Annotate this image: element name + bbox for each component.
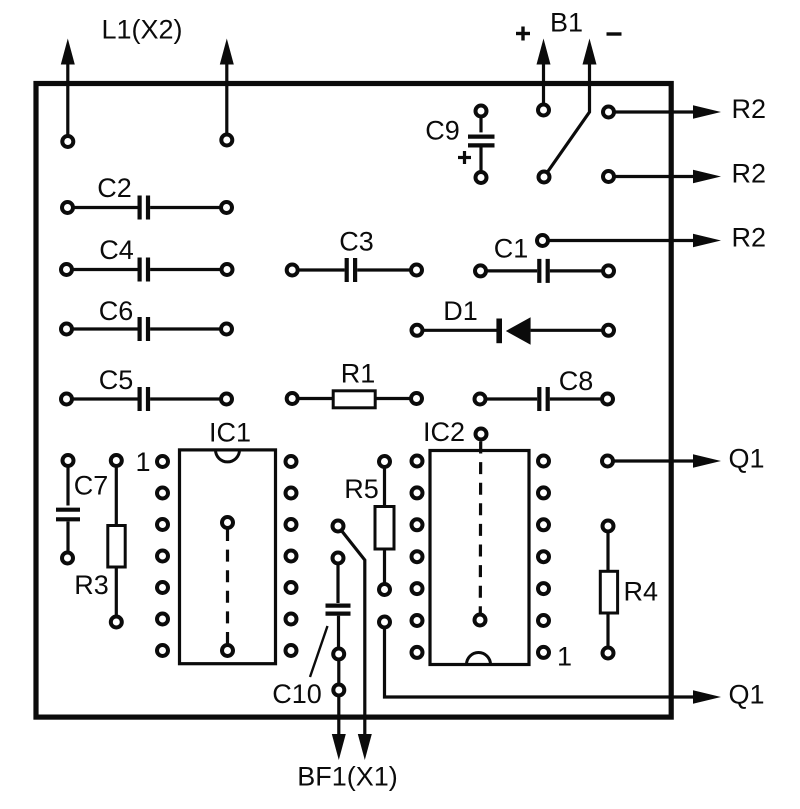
pad IC1 pin 4 (left col) bbox=[157, 551, 168, 562]
pad IC1 pin 2 (left col) bbox=[157, 488, 168, 499]
pad C6 left bbox=[61, 324, 72, 335]
pad L1 b bbox=[221, 135, 232, 146]
svg-text:IC2: IC2 bbox=[423, 417, 465, 447]
svg-text:C5: C5 bbox=[99, 365, 134, 395]
pad IC2 pin 13 (left col) bbox=[412, 487, 423, 498]
svg-text:C7: C7 bbox=[74, 471, 109, 501]
pad D1 left bbox=[412, 325, 423, 336]
pad C8 left bbox=[475, 394, 486, 405]
svg-text:Q1: Q1 bbox=[729, 444, 765, 474]
pad IC1 inner bottom bbox=[222, 645, 233, 656]
pad BF1 right origin bbox=[333, 521, 344, 532]
capacitor C6 bbox=[67, 317, 227, 341]
wire R2 bottom bbox=[543, 234, 722, 248]
pad IC2 pin 8 (left col) bbox=[412, 647, 423, 658]
pad IC2 pin 3 (right col) bbox=[538, 519, 549, 530]
pad C9 top bbox=[476, 106, 487, 117]
connector BF1 arrow left bbox=[332, 690, 346, 760]
pad C10 bottom bbox=[333, 649, 344, 660]
svg-text:L1(X2): L1(X2) bbox=[101, 15, 182, 45]
wire R2 top bbox=[609, 105, 722, 119]
wire C10 to BF1 pad bbox=[337, 654, 340, 690]
svg-text:R5: R5 bbox=[344, 474, 379, 504]
svg-text:C9: C9 bbox=[425, 116, 460, 146]
svg-text:1: 1 bbox=[135, 447, 150, 477]
capacitor C8 bbox=[480, 387, 608, 411]
pad C8 right bbox=[602, 394, 613, 405]
pad IC1 pin 14 (right col) bbox=[286, 456, 297, 467]
wire Q1 bottom bbox=[385, 622, 722, 704]
pad R3 top bbox=[111, 455, 122, 466]
pad IC2 pin 9 (left col) bbox=[412, 615, 423, 626]
IC2 dashed center line bbox=[479, 442, 483, 614]
pad IC1 pin 12 (right col) bbox=[286, 519, 297, 530]
pad IC1 pin 5 (left col) bbox=[157, 582, 168, 593]
svg-text:C10: C10 bbox=[272, 679, 322, 709]
pad C3 left bbox=[287, 265, 298, 276]
svg-text:R3: R3 bbox=[74, 570, 109, 600]
board outline bbox=[36, 84, 671, 718]
wire R2 middle bbox=[609, 170, 722, 184]
capacitor C7 bbox=[56, 461, 80, 559]
svg-text:Q1: Q1 bbox=[729, 680, 765, 710]
pad IC2 pin 2 (right col) bbox=[538, 487, 549, 498]
capacitor C2 bbox=[68, 196, 227, 220]
connector B1 minus arrow bbox=[583, 39, 597, 65]
pad IC2 pin 6 (right col) bbox=[538, 615, 549, 626]
label B1 plus sign bbox=[516, 27, 530, 41]
connector L1(X2) arrow B bbox=[220, 39, 234, 141]
pad R1 right bbox=[411, 393, 422, 404]
connector B1 plus arrow bbox=[537, 39, 551, 111]
pad R2 bottom bbox=[537, 235, 548, 246]
svg-text:C3: C3 bbox=[339, 227, 374, 257]
pad Q1 top bbox=[602, 456, 613, 467]
resistor R1 bbox=[292, 391, 416, 408]
pad C7 bottom bbox=[62, 553, 73, 564]
pad IC1 pin 7 (left col) bbox=[157, 645, 168, 656]
pad IC2 pin 5 (right col) bbox=[538, 583, 549, 594]
pad R5 top bbox=[379, 456, 390, 467]
pad C4 left bbox=[61, 264, 72, 275]
svg-text:C1: C1 bbox=[494, 234, 529, 264]
pad Q1 bottom bbox=[379, 617, 390, 628]
pad B1 minus bbox=[539, 172, 550, 183]
pad IC2 pin 4 (right col) bbox=[538, 551, 549, 562]
svg-text:R2: R2 bbox=[732, 159, 767, 189]
pad IC1 pin 6 (left col) bbox=[157, 614, 168, 625]
svg-text:B1: B1 bbox=[550, 8, 583, 38]
pad IC1 pin 8 (right col) bbox=[286, 645, 297, 656]
capacitor C4 bbox=[67, 258, 228, 282]
pad IC2 inner bottom bbox=[475, 615, 486, 626]
svg-text:IC1: IC1 bbox=[209, 418, 251, 448]
capacitor C1 bbox=[481, 259, 609, 283]
pad R4 top bbox=[603, 521, 614, 532]
svg-text:1: 1 bbox=[557, 642, 572, 672]
IC U2 (IC2) body bbox=[430, 451, 529, 665]
pad IC2 pin 1 (right col) bbox=[538, 456, 549, 467]
capacitor C9 bbox=[468, 111, 495, 178]
svg-text:R1: R1 bbox=[341, 359, 376, 389]
pad C5 left bbox=[61, 394, 72, 405]
IC U1 (IC1) body bbox=[180, 450, 276, 664]
pad IC2 pin 14 (left col) bbox=[412, 456, 423, 467]
pad IC1 pin 1 (left col) bbox=[157, 456, 168, 467]
pad C1 left bbox=[475, 265, 486, 276]
label B1 minus sign bbox=[607, 32, 622, 35]
pad BF1 left origin bbox=[333, 685, 344, 696]
capacitor C10 bbox=[326, 558, 351, 654]
resistor R4 bbox=[600, 526, 617, 653]
svg-text:R4: R4 bbox=[624, 577, 659, 607]
pad R2 top bbox=[603, 107, 614, 118]
svg-text:C6: C6 bbox=[99, 296, 134, 326]
pad R2 middle bbox=[603, 171, 614, 182]
pad R5 bottom bbox=[379, 584, 390, 595]
svg-text:C4: C4 bbox=[99, 235, 134, 265]
pad C2 left bbox=[62, 202, 73, 213]
pad IC1 pin 9 (right col) bbox=[286, 614, 297, 625]
pad D1 right bbox=[603, 325, 614, 336]
pad IC2 pin 12 (left col) bbox=[412, 519, 423, 530]
label C9 plus sign bbox=[458, 151, 471, 164]
pad C4 right bbox=[222, 264, 233, 275]
svg-text:D1: D1 bbox=[443, 296, 478, 326]
wire B1 minus diagonal bbox=[544, 63, 590, 178]
pad L1 a bbox=[62, 136, 73, 147]
pad C10 top bbox=[333, 553, 344, 564]
pad R1 left bbox=[287, 393, 298, 404]
wire Q1 top bbox=[608, 454, 722, 468]
pad IC2 pin 11 (left col) bbox=[412, 551, 423, 562]
pad C3 right bbox=[411, 265, 422, 276]
IC1 dashed center line bbox=[226, 529, 229, 645]
connector BF1 arrow right bbox=[358, 734, 372, 760]
svg-text:BF1(X1): BF1(X1) bbox=[297, 762, 398, 792]
pad C1 right bbox=[603, 265, 614, 276]
pad C9 bottom bbox=[476, 172, 487, 183]
svg-text:C8: C8 bbox=[559, 366, 594, 396]
diode D1 bbox=[417, 317, 609, 345]
pad IC2 pin 7 (right col) bbox=[538, 647, 549, 658]
label C10 pointer bbox=[310, 626, 328, 677]
pad IC1 pin 13 (right col) bbox=[286, 488, 297, 499]
svg-text:C2: C2 bbox=[97, 173, 132, 203]
pad C2 right bbox=[221, 202, 232, 213]
pad C5 right bbox=[221, 394, 232, 405]
pad R4 bottom bbox=[603, 648, 614, 659]
pad R3 bottom bbox=[111, 617, 122, 628]
pad B1 plus bbox=[538, 105, 549, 116]
connector L1(X2) arrow A bbox=[61, 39, 75, 142]
pad IC1 pin 3 (left col) bbox=[157, 519, 168, 530]
pad IC1 pin 10 (right col) bbox=[286, 582, 297, 593]
capacitor C3 bbox=[292, 258, 416, 282]
resistor R5 bbox=[375, 462, 394, 590]
wire BF1 right lead bbox=[341, 530, 365, 736]
pad C6 right bbox=[221, 324, 232, 335]
capacitor C5 bbox=[67, 387, 227, 411]
pad IC1 pin 11 (right col) bbox=[286, 551, 297, 562]
pad C7 top bbox=[63, 455, 74, 466]
pad IC1 inner top bbox=[222, 517, 233, 528]
pad IC2 pin 10 (left col) bbox=[412, 583, 423, 594]
svg-text:R2: R2 bbox=[732, 94, 767, 124]
svg-text:R2: R2 bbox=[732, 223, 767, 253]
pad IC2 inner top bbox=[476, 429, 487, 440]
resistor R3 bbox=[108, 461, 125, 623]
